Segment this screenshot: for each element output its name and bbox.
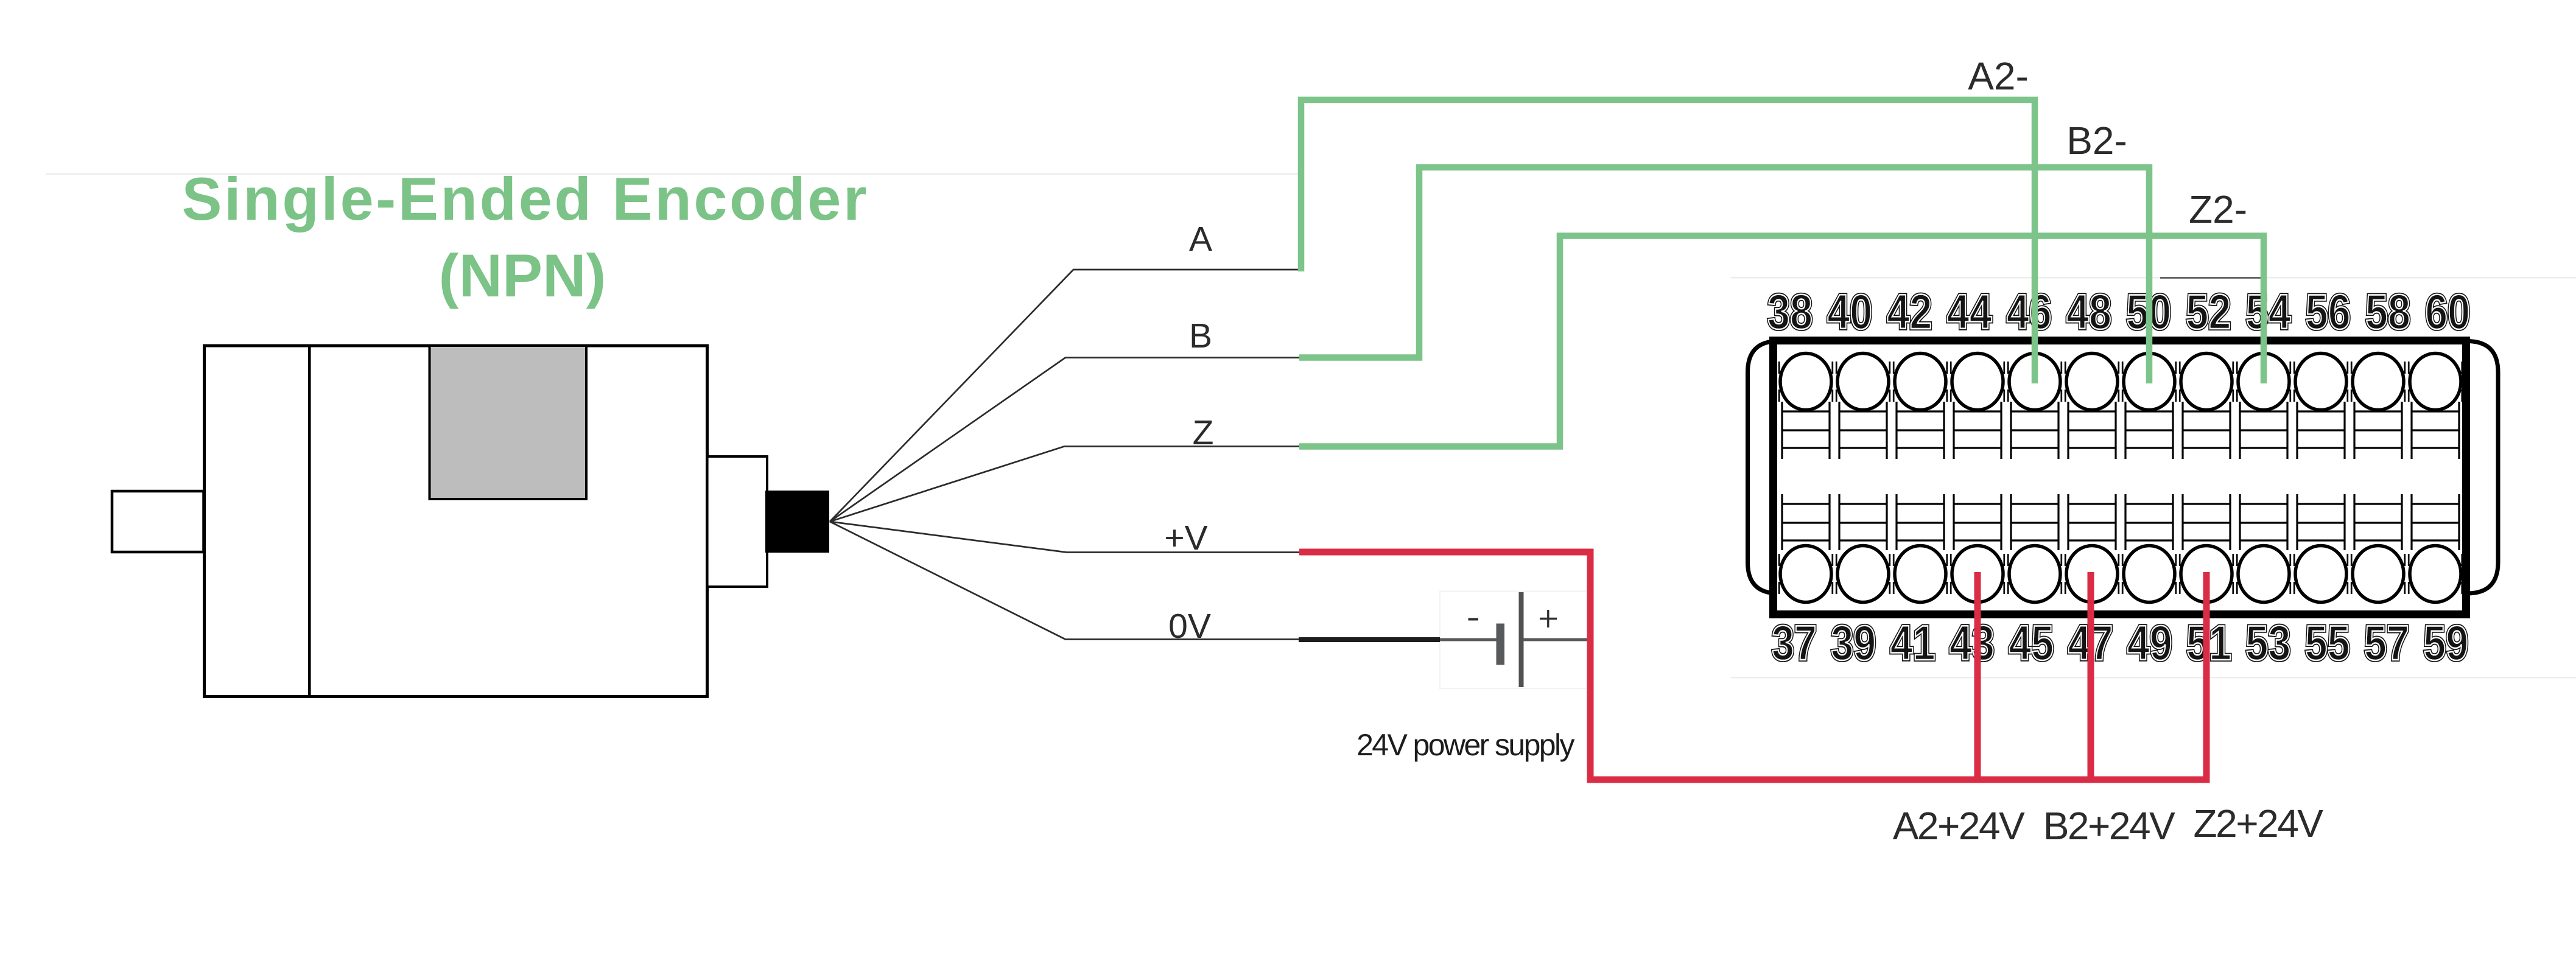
svg-text:24V power supply: 24V power supply <box>1356 728 1574 762</box>
svg-text:49: 49 <box>2127 616 2172 671</box>
svg-text:57: 57 <box>2364 616 2409 671</box>
pin number 43 <box>1950 616 1995 671</box>
svg-text:60: 60 <box>2425 285 2470 340</box>
top row clamp stubs <box>1775 362 2466 402</box>
motor rear step <box>707 456 767 587</box>
svg-text:(NPN): (NPN) <box>439 242 606 309</box>
upper contact ladders <box>1782 402 2459 459</box>
red riser pin 43 <box>1974 572 1981 780</box>
svg-text:A2+24V: A2+24V <box>1893 804 2025 848</box>
terminal block main body <box>1774 341 2466 615</box>
svg-text:59: 59 <box>2423 616 2468 671</box>
svg-text:+V: +V <box>1164 519 1207 557</box>
0V thick black segment <box>1299 637 1440 642</box>
pin hole top 52 <box>2181 354 2232 410</box>
svg-text:39: 39 <box>1831 616 1876 671</box>
wire B2 (green, B to pin 50) <box>1299 167 2149 383</box>
motor shaft <box>112 491 204 552</box>
pin hole top 44 <box>1952 354 2003 410</box>
pin number 49 <box>2127 616 2172 671</box>
svg-text:48: 48 <box>2066 285 2111 340</box>
pin hole top 46 <box>2009 354 2060 410</box>
wire Z2 (green, Z to pin 54) <box>1299 236 2264 447</box>
thin dark tick on seam <box>2160 277 2267 278</box>
minus sign <box>1469 618 1479 621</box>
motor body divider line <box>308 346 311 697</box>
pin hole bottom 37 <box>1780 546 1831 603</box>
terminal block left ear <box>1748 341 1803 594</box>
pin hole top 42 <box>1895 354 1946 410</box>
pin hole bottom 49 <box>2124 546 2175 603</box>
pin number 42 <box>1887 285 1932 340</box>
pin number 50 <box>2126 285 2171 340</box>
seam line left <box>46 173 1304 175</box>
svg-text:Z2+24V: Z2+24V <box>2194 802 2324 845</box>
pin hole bottom 53 <box>2238 546 2289 603</box>
pin number 59 <box>2423 616 2468 671</box>
svg-text:41: 41 <box>1890 616 1936 671</box>
pin number 56 <box>2306 285 2351 340</box>
wire B lead <box>830 358 1299 522</box>
svg-text:53: 53 <box>2245 616 2290 671</box>
svg-text:58: 58 <box>2365 285 2410 340</box>
pin hole bottom 43 <box>1952 546 2003 603</box>
pin hole bottom 41 <box>1895 546 1946 603</box>
wire A2 (green, A to pin 46) <box>1301 100 2035 383</box>
plus sign <box>1540 610 1557 627</box>
pin number 53 <box>2245 616 2290 671</box>
pin number 39 <box>1831 616 1876 671</box>
pin number 45 <box>2009 616 2054 671</box>
pin number 60 <box>2425 285 2470 340</box>
pin hole bottom 57 <box>2353 546 2404 603</box>
pin hole bottom 51 <box>2181 546 2232 603</box>
pin number 47 <box>2068 616 2113 671</box>
svg-text:B: B <box>1189 316 1212 355</box>
svg-text:54: 54 <box>2246 285 2291 340</box>
pin number 54 <box>2246 285 2291 340</box>
svg-text:A2-: A2- <box>1968 54 2029 98</box>
battery short plate (negative) <box>1497 624 1505 665</box>
svg-text:0V: 0V <box>1168 607 1211 646</box>
wire +V to power supply and pins (red) <box>1299 552 2210 780</box>
svg-text:37: 37 <box>1772 616 1817 671</box>
pin hole top 48 <box>2066 354 2118 410</box>
svg-text:46: 46 <box>2007 285 2052 340</box>
pin hole bottom 39 <box>1837 546 1889 603</box>
pin hole top 38 <box>1780 354 1831 410</box>
pin number 52 <box>2186 285 2231 340</box>
svg-text:Z2-: Z2- <box>2189 187 2247 231</box>
pin hole bottom 59 <box>2410 546 2461 603</box>
svg-text:52: 52 <box>2186 285 2231 340</box>
red riser pin 47 <box>2088 572 2094 780</box>
pin hole top 50 <box>2124 354 2175 410</box>
svg-text:B2+24V: B2+24V <box>2043 804 2175 848</box>
pin number 44 <box>1947 285 1992 340</box>
battery positive lead wire <box>1523 638 1593 641</box>
svg-text:43: 43 <box>1950 616 1995 671</box>
encoder motor body <box>205 346 707 697</box>
svg-text:A: A <box>1189 220 1212 259</box>
motor gray block <box>430 346 587 499</box>
pin number 40 <box>1827 285 1872 340</box>
pin number 46 <box>2007 285 2052 340</box>
pin number 51 <box>2186 616 2231 671</box>
pin number 37 <box>1772 616 1817 671</box>
svg-text:B2-: B2- <box>2066 119 2127 162</box>
red riser pin 51 <box>2203 572 2210 780</box>
svg-text:55: 55 <box>2305 616 2350 671</box>
pin hole top 56 <box>2295 354 2346 410</box>
pin number 48 <box>2066 285 2111 340</box>
pin number 41 <box>1890 616 1936 671</box>
wire +V lead <box>830 522 1299 553</box>
pin number 58 <box>2365 285 2410 340</box>
pin hole top 54 <box>2238 354 2289 410</box>
seam line right lower <box>1731 677 2576 679</box>
pin hole top 58 <box>2353 354 2404 410</box>
lower contact ladders <box>1782 494 2459 550</box>
battery white box <box>1440 592 1588 689</box>
pin number 57 <box>2364 616 2409 671</box>
seam line right upper <box>1731 277 2576 279</box>
bottom row clamp stubs <box>1775 554 2466 594</box>
svg-text:Z: Z <box>1193 413 1214 452</box>
terminal block right ear <box>2435 341 2498 594</box>
cable plug (black) <box>765 491 829 553</box>
pin hole top 60 <box>2410 354 2461 410</box>
pin number 38 <box>1767 285 1813 340</box>
svg-text:Single-Ended Encoder: Single-Ended Encoder <box>182 165 867 232</box>
svg-text:38: 38 <box>1767 285 1813 340</box>
wire 0V lead <box>830 522 1299 640</box>
pin number 55 <box>2305 616 2350 671</box>
wire A lead <box>830 270 1299 522</box>
pin hole bottom 45 <box>2009 546 2060 603</box>
pin hole bottom 47 <box>2066 546 2118 603</box>
svg-text:42: 42 <box>1887 285 1932 340</box>
battery negative lead wire <box>1440 638 1497 641</box>
pin hole bottom 55 <box>2295 546 2346 603</box>
pin hole top 40 <box>1837 354 1889 410</box>
svg-text:56: 56 <box>2306 285 2351 340</box>
battery long plate (positive) <box>1519 592 1524 687</box>
svg-text:45: 45 <box>2009 616 2054 671</box>
svg-text:40: 40 <box>1827 285 1872 340</box>
wire Z lead <box>830 447 1299 522</box>
svg-text:44: 44 <box>1947 285 1992 340</box>
